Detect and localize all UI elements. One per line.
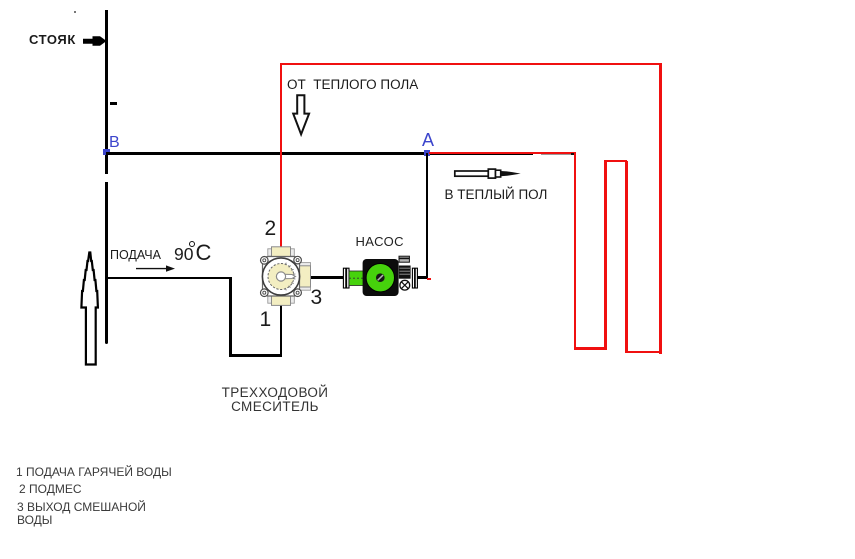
bolt ear top-right: [294, 256, 302, 264]
outer ring: [262, 258, 299, 295]
red loop top connector: [604, 160, 627, 162]
label ПОДАЧА: [110, 248, 161, 262]
bottom port flange: [268, 296, 295, 303]
label ОТ ТЕПЛОГО ПОЛА: [287, 77, 418, 92]
terminal cap: [399, 256, 409, 262]
red loop vertical 2: [604, 160, 606, 350]
label 90: [174, 244, 193, 265]
node A junction dot: [424, 150, 430, 156]
label В ТЕПЛЫЙ ПОЛ: [445, 187, 548, 202]
selector knob: [400, 280, 410, 290]
pipe pump to A-drop: [416, 276, 428, 279]
red top header pipe: [280, 63, 662, 65]
pipe valve port 3 to pump: [310, 276, 346, 279]
right port flange: [299, 263, 311, 291]
dial disc: [268, 264, 294, 290]
left flange: [343, 268, 345, 288]
big outline up arrow: [77, 248, 103, 370]
dial ticks: [285, 263, 295, 291]
legend line 3: [17, 500, 146, 514]
circulation pump: [340, 252, 420, 300]
supply pipe up into valve port 1: [280, 302, 283, 356]
legend line 2: [19, 482, 82, 496]
knob: [276, 272, 285, 281]
riser tick mark: [110, 102, 117, 105]
right flange: [412, 268, 414, 288]
riser pipe lower segment: [105, 182, 108, 344]
label НАСОС: [356, 234, 404, 249]
black nub at red corner: [571, 153, 576, 155]
solid arrow into riser: [80, 33, 110, 49]
label С: [196, 240, 212, 266]
supply pipe horizontal from riser: [106, 277, 231, 280]
supply pipe down: [229, 277, 232, 357]
red return pipe down to valve port 2: [280, 63, 282, 247]
pipe B to A horizontal: [106, 152, 533, 155]
label СТОЯК: [29, 32, 76, 47]
green inlet pipe: [349, 271, 364, 286]
pump housing: [363, 259, 399, 296]
caption ТРЕХХОДОВОЙ СМЕСИТЕЛЬ: [200, 386, 350, 413]
red loop bottom 2: [625, 351, 661, 353]
small red dash at pump junction: [427, 278, 431, 281]
outline down arrow: [290, 93, 312, 138]
valve body: [263, 257, 300, 297]
port label 2: [265, 217, 277, 241]
terminal box with fins: [399, 266, 411, 279]
bolt ear top-left: [261, 257, 269, 265]
hub: [376, 273, 385, 282]
bolt ear bottom-left: [261, 289, 269, 297]
red loop vertical 1: [574, 152, 576, 350]
small flow arrow: [134, 263, 178, 273]
three-way mixer valve: [255, 240, 317, 312]
impeller face: [366, 264, 394, 292]
knob pointer: [281, 274, 296, 279]
pipe down from A to pump line: [426, 153, 429, 279]
red loop vertical 3: [625, 161, 627, 354]
top port flange: [268, 249, 295, 256]
faint pipe continuation to serpentine: [541, 154, 575, 155]
stray dot above К: [74, 11, 76, 13]
port label 1: [260, 308, 272, 332]
supply pipe bottom horizontal: [229, 354, 282, 357]
port label 3: [311, 286, 323, 310]
node A label: [422, 130, 434, 151]
red loop bottom 1: [574, 347, 607, 349]
degree ring: [189, 241, 196, 248]
red right riser of loop: [659, 63, 661, 354]
node B label: [109, 134, 120, 152]
bolt ear bottom-right: [294, 289, 302, 297]
outline right arrow: [450, 164, 526, 184]
legend line 4: [17, 513, 52, 527]
red pipe A to loop: [429, 152, 576, 154]
riser pipe upper segment: [105, 10, 108, 174]
legend line 1: [16, 465, 172, 479]
node B junction dot: [103, 149, 110, 155]
